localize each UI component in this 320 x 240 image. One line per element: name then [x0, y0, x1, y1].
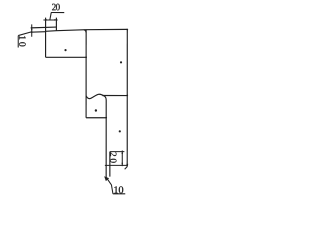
right edge end arrow [126, 164, 128, 167]
main top edge [56, 29, 127, 30]
dim 20 top dimension line [43, 19, 57, 21]
dim 20 top leader [50, 13, 51, 20]
dim 20 top underline [51, 12, 64, 14]
dim text 10 top-left rotated [19, 36, 26, 46]
dim 20 bottom bottom extension line [105, 164, 128, 166]
dim text 20 top [52, 4, 60, 11]
lower piece bottom edge [86, 117, 106, 119]
dim 10 top underline [17, 36, 19, 48]
plate A left edge / extension line [45, 18, 47, 58]
right edge [126, 29, 128, 166]
point marker B [120, 61, 122, 63]
corner node right-mid [126, 95, 128, 97]
right edge end tick [125, 167, 128, 170]
dim 10 top upper arrow [31, 27, 33, 30]
stem right edge [109, 152, 111, 177]
step vertical / extension line [55, 18, 57, 31]
bar B bottom edge [102, 95, 127, 97]
corner node lower-bottom [105, 117, 107, 119]
inner top fillet [84, 30, 86, 33]
dim 20 bottom lower arrow [121, 163, 123, 166]
dim 10 bottom leader arrow [104, 176, 109, 181]
dim 10 top lower arrow [31, 31, 33, 34]
break wavy edge [86, 94, 103, 98]
dim 20 top right arrow [54, 19, 57, 21]
corner node A-bottom [85, 56, 87, 58]
dim 20 top left arrow [43, 19, 46, 21]
point marker D [119, 130, 121, 132]
dim 10 top leader [18, 32, 32, 36]
stem left edge with fillet [103, 95, 106, 177]
inner vertical edge [85, 30, 87, 118]
dim 20 bottom top extension line [110, 151, 124, 153]
strip top edge [31, 26, 57, 29]
dim 20 bottom upper arrow [121, 151, 123, 154]
dim 10 bottom leader [106, 177, 113, 194]
dim text 10 bottom [114, 186, 123, 193]
dim text 20 bottom rotated [110, 152, 116, 162]
corner node top-right [126, 29, 128, 31]
strip bottom edge [31, 31, 46, 34]
dim 10 bottom underline [113, 193, 125, 195]
dim 10 top dimension line [31, 24, 33, 36]
plate A bottom edge [46, 56, 86, 58]
point marker A [64, 49, 66, 51]
dim 20 bottom dimension line [121, 151, 123, 167]
plate A top edge [46, 30, 57, 33]
point marker C [95, 109, 97, 111]
